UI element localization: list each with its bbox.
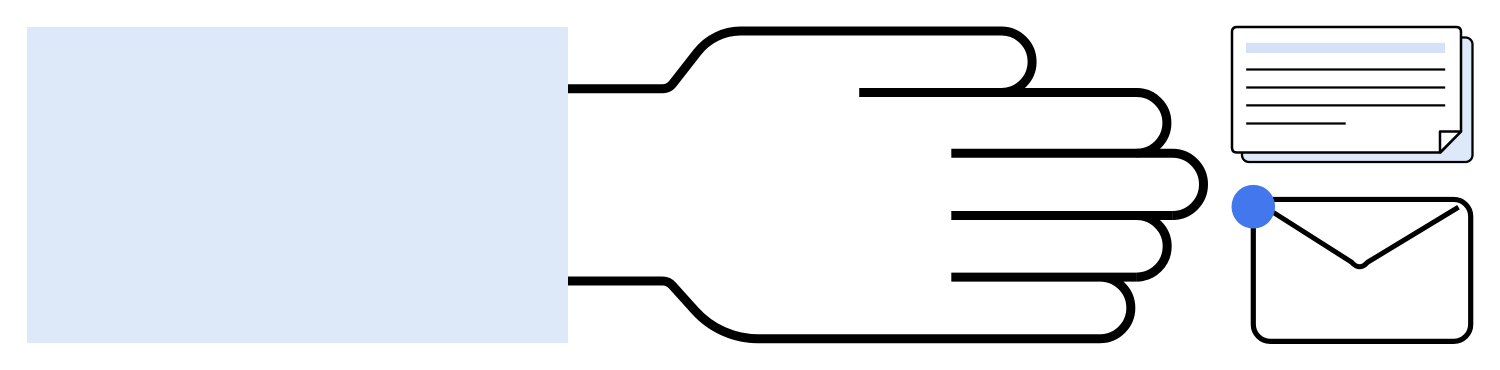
hand: index/middle separation + middle fingertip (951, 153, 1203, 215)
document: highlighted text band (1246, 43, 1445, 53)
document: folded corner flap (1440, 132, 1461, 153)
document: text line 1 (1246, 68, 1445, 70)
document: text line 3 (1246, 104, 1445, 106)
hand: middle/ring separation + ring fingertip (951, 216, 1172, 278)
envelope flap (1254, 200, 1459, 267)
hand: index finger top line + index fingertip (859, 93, 1167, 154)
envelope body (1253, 199, 1470, 341)
notification dot (1232, 185, 1276, 229)
hand: ring/pinky separation + pinky fingertip (951, 277, 1136, 339)
document: front sheet with folded corner (1232, 27, 1461, 153)
hand: bottom arm line + palm bottom edge (568, 281, 1100, 339)
document: back sheet (1242, 38, 1473, 163)
document: text line 2 (1246, 86, 1445, 88)
light blue panel (27, 27, 568, 343)
hand: top arm line + back of hand + thumb (568, 31, 1032, 92)
document: text line 4 (short) (1246, 122, 1346, 124)
